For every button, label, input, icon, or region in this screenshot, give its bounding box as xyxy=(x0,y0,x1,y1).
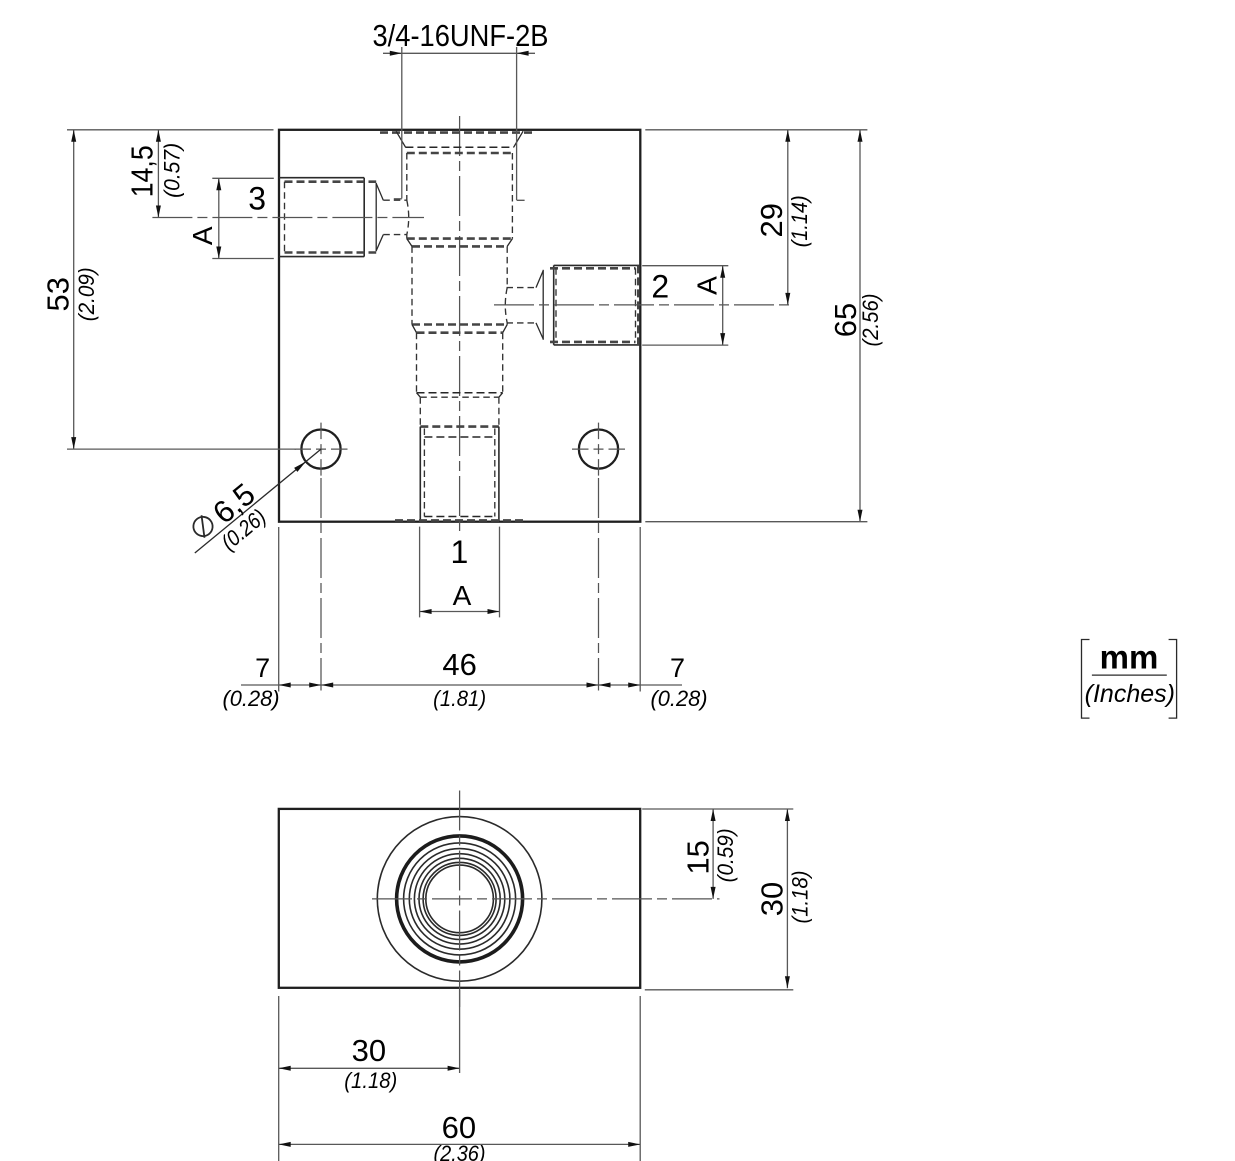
svg-text:29: 29 xyxy=(754,203,789,237)
port 2 spotface outline (solid) xyxy=(554,265,640,345)
diameter leader arrow xyxy=(294,460,307,472)
svg-text:(0.57): (0.57) xyxy=(159,143,184,198)
dim 3/4-16UNF-2B extension lines with depth ticks xyxy=(394,47,525,200)
svg-text:(1.18): (1.18) xyxy=(787,871,812,924)
bottom view block outline xyxy=(279,809,640,988)
dim 60 line xyxy=(279,1143,641,1145)
svg-text:A: A xyxy=(692,276,723,295)
legend left bracket xyxy=(1082,640,1090,719)
cavity step1 chamfer xyxy=(407,239,513,247)
svg-text:(1.81): (1.81) xyxy=(433,686,486,711)
dim 30 right arrows xyxy=(785,809,790,988)
svg-text:2: 2 xyxy=(651,269,669,305)
port1 thread right wall xyxy=(494,429,496,517)
dim 53 line xyxy=(73,130,75,449)
svg-text:(1.18): (1.18) xyxy=(344,1068,397,1093)
svg-text:7: 7 xyxy=(670,653,685,683)
port 1 dim A extension lines xyxy=(420,527,500,618)
svg-text:(0.59): (0.59) xyxy=(713,828,738,882)
diameter symbol xyxy=(189,513,216,540)
svg-text:(2.09): (2.09) xyxy=(74,267,99,321)
port 3 thread bottom (heavy hidden) xyxy=(285,251,377,254)
cavity step3 chamfer xyxy=(417,393,503,398)
cavity section4 top line xyxy=(420,396,499,398)
bottom view bore circle xyxy=(426,865,494,933)
svg-text:(2.56): (2.56) xyxy=(858,294,883,347)
svg-text:46: 46 xyxy=(442,647,476,682)
mounting hole left crosshair xyxy=(295,423,348,476)
cavity chamfer bottom line xyxy=(405,146,513,148)
port 2 centerline xyxy=(494,304,793,306)
cavity section2 top line xyxy=(412,245,507,248)
dim 14,5 arrows xyxy=(156,130,161,218)
main cavity centerline xyxy=(459,116,461,535)
port 2 dim A line xyxy=(722,266,724,345)
bottom view thread major circle (thick) xyxy=(397,836,523,962)
svg-text:(2.36): (2.36) xyxy=(434,1141,486,1161)
cavity section3 right wall xyxy=(502,333,504,393)
svg-text:7: 7 xyxy=(255,653,270,683)
mounting hole right crosshair xyxy=(572,423,625,476)
dim 15 arrows xyxy=(711,809,716,899)
svg-text:(1.14): (1.14) xyxy=(787,195,812,247)
legend divider xyxy=(1092,674,1167,676)
mounting hole left xyxy=(301,430,340,469)
svg-text:53: 53 xyxy=(41,277,76,311)
cavity top chamfer right xyxy=(514,131,524,147)
port1 thread bottom line xyxy=(424,516,494,518)
dim 14,5 line xyxy=(157,130,159,218)
dim 65 arrows xyxy=(858,130,863,522)
port1 counterbore right wall (solid) xyxy=(498,427,500,522)
port 3 dim A line xyxy=(218,178,220,258)
dim 65 line xyxy=(859,130,861,522)
hole centerline extension to 53 dim xyxy=(67,448,296,450)
port 1 dim A line xyxy=(420,611,500,613)
port 2 pilot bore xyxy=(507,288,537,323)
dim 60 arrows xyxy=(279,1142,641,1147)
port 3 pilot bore xyxy=(383,200,407,234)
cavity section4 left wall xyxy=(419,397,421,426)
dim 29 arrows xyxy=(785,130,790,305)
cavity section2 left wall xyxy=(411,246,413,324)
top edge extension line left xyxy=(67,129,274,131)
cavity thread bottom line xyxy=(407,237,513,240)
svg-text:15: 15 xyxy=(680,840,715,874)
dim 29 line xyxy=(787,130,789,305)
cavity section2 bottom line xyxy=(412,323,507,326)
top edge extension line right xyxy=(645,129,867,131)
diameter leader line xyxy=(195,449,321,553)
dim 30 bottom arrows xyxy=(279,1066,460,1071)
dim 15 line xyxy=(712,809,714,899)
port1 thread top line xyxy=(424,436,494,438)
cavity step2 chamfer xyxy=(412,325,507,333)
port 2 thread bottom (heavy hidden) xyxy=(550,341,636,344)
mounting hole right xyxy=(579,430,618,469)
svg-text:mm: mm xyxy=(1100,639,1159,676)
port 2 pilot intersection arc xyxy=(505,288,507,323)
dim 7-46-7 arrows xyxy=(279,683,641,688)
port 2 drill cone xyxy=(536,271,543,339)
dim 3/4-16UNF-2B arrows xyxy=(390,51,529,56)
bottom view vertical centerline xyxy=(459,791,461,1008)
dim 7-46-7 line xyxy=(241,684,682,686)
port 2 crest at right face (thick hidden) xyxy=(637,265,640,345)
bottom view bottom edge extension right xyxy=(645,989,794,991)
port1 counterbore left wall (solid) xyxy=(419,427,421,522)
port 2 thread top (heavy hidden) xyxy=(550,267,636,270)
bottom edge extension line right xyxy=(645,521,867,523)
port 3 dim A extension lines xyxy=(212,178,273,258)
bottom view lower extension lines xyxy=(279,990,641,1161)
svg-text:3/4-16UNF-2B: 3/4-16UNF-2B xyxy=(373,18,549,53)
dim 53 arrows xyxy=(71,130,76,449)
cavity thread right wall xyxy=(511,153,513,239)
port 3 thread start line xyxy=(375,183,377,251)
port1 crest at bottom face (thick hidden) xyxy=(395,519,524,522)
cavity section3 top line xyxy=(417,331,503,334)
svg-text:30: 30 xyxy=(755,882,790,916)
port 3 thread top (heavy hidden) xyxy=(285,180,377,183)
cavity seal counterbore (hidden, at top face) xyxy=(380,131,534,134)
svg-text:(0.28): (0.28) xyxy=(651,686,708,711)
port1 thread left wall xyxy=(423,429,425,517)
svg-text:A: A xyxy=(453,580,472,611)
bottom dims extension lines xyxy=(279,527,641,692)
port 2 thread inner vertical xyxy=(555,268,557,342)
svg-text:A: A xyxy=(187,226,218,245)
svg-text:60: 60 xyxy=(442,1110,476,1145)
port 3 drill cone xyxy=(376,184,383,251)
svg-text:14,5: 14,5 xyxy=(125,145,160,197)
block body outline xyxy=(279,130,640,522)
port 3 spotface outline (solid) xyxy=(279,178,364,257)
cavity section3 bottom line xyxy=(417,392,503,394)
port 1 dim A arrows xyxy=(420,609,500,614)
mounting hole left vertical centerline xyxy=(320,478,322,691)
svg-text:(Inches): (Inches) xyxy=(1085,680,1175,708)
dim 3/4-16UNF-2B line xyxy=(383,52,535,54)
bottom view spotface circle xyxy=(377,817,542,982)
bottom view thread helix circles xyxy=(404,843,516,955)
svg-text:(0.28): (0.28) xyxy=(223,686,280,711)
dim 30 right line xyxy=(786,809,788,988)
port 2 dim A arrows xyxy=(720,266,725,345)
cavity section3 left wall xyxy=(416,333,418,393)
svg-text:30: 30 xyxy=(352,1033,386,1068)
cavity top chamfer left xyxy=(396,131,406,147)
dim 30 bottom line xyxy=(279,1067,460,1069)
legend right bracket xyxy=(1169,640,1177,719)
svg-text:3: 3 xyxy=(248,181,266,217)
bottom view top edge extension right xyxy=(642,808,793,810)
port1 counterbore top line (thick hidden) xyxy=(420,425,499,428)
port 3 thread inner end wall xyxy=(284,182,286,253)
port 2 thread start line xyxy=(542,270,544,340)
cavity section4 right wall xyxy=(498,397,500,426)
cavity section2 right wall xyxy=(506,246,508,324)
cavity thread top line xyxy=(407,152,513,155)
port 3 centerline xyxy=(152,217,424,219)
port 3 dim A arrows xyxy=(216,178,221,258)
cavity thread left wall xyxy=(406,153,408,239)
port 2 thread end near face xyxy=(635,268,637,342)
bottom view horizontal centerline xyxy=(372,898,720,900)
port 3 pilot intersection arc xyxy=(407,200,409,234)
port 2 dim A extension lines xyxy=(642,266,728,345)
mounting hole right vertical centerline xyxy=(598,478,600,691)
svg-text:1: 1 xyxy=(451,534,469,570)
